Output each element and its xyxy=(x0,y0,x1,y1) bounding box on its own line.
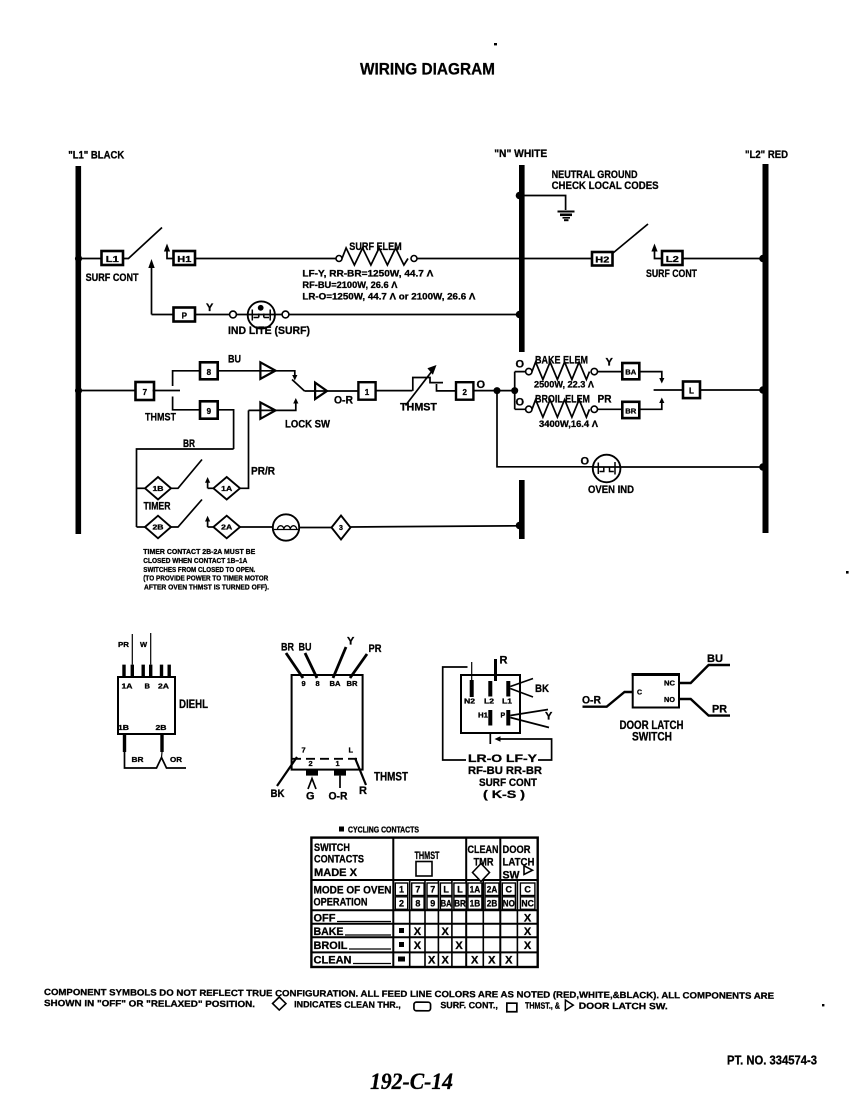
svg-text:X: X xyxy=(524,913,532,925)
svg-text:AFTER OVEN THMST IS TURNED: AFTER OVEN THMST IS TURNED OFF). xyxy=(144,583,269,592)
svg-text:L1: L1 xyxy=(502,699,512,706)
label LOCK SW xyxy=(285,419,331,431)
svg-text:RF-BU=2100W, 26.6 Λ: RF-BU=2100W, 26.6 Λ xyxy=(302,280,397,290)
svg-text:X: X xyxy=(524,940,532,952)
svg-text:P: P xyxy=(182,312,188,321)
label neutral ground xyxy=(552,169,659,192)
svg-text:CLEAN: CLEAN xyxy=(314,955,352,967)
svg-text:DOOR: DOOR xyxy=(503,844,531,856)
svg-text:SWITCH: SWITCH xyxy=(632,730,672,744)
svg-text:BK: BK xyxy=(535,683,549,695)
svg-text:THMST., &: THMST., & xyxy=(525,1001,560,1011)
contact arrow H1 xyxy=(164,244,174,259)
surfcont right bracket xyxy=(495,736,552,760)
label Y bake xyxy=(606,357,614,369)
thmst lead PR xyxy=(350,643,382,678)
svg-text:OVEN IND: OVEN IND xyxy=(588,484,634,496)
terminal box 2 xyxy=(456,382,473,400)
svg-text:8: 8 xyxy=(207,368,212,377)
surfcont terminal H1 xyxy=(478,710,492,726)
symbol thmst square xyxy=(507,1003,517,1012)
part number xyxy=(727,1054,817,1068)
diehl BR wire xyxy=(125,752,187,768)
doorlatch lead NO xyxy=(679,699,730,716)
label bus N xyxy=(494,148,547,160)
svg-text:7: 7 xyxy=(302,746,306,755)
wire bake to BA xyxy=(598,371,623,373)
svg-text:7: 7 xyxy=(143,388,148,397)
svg-text:BAKE: BAKE xyxy=(314,926,344,938)
mode cells lower xyxy=(395,897,535,910)
contact arrow 1A xyxy=(205,477,213,488)
svg-text:X: X xyxy=(471,955,479,967)
terminal circle broil left xyxy=(526,406,532,412)
svg-text:1A: 1A xyxy=(470,885,481,895)
label BAKE ELEM xyxy=(535,355,588,367)
lamp OVEN IND xyxy=(593,455,621,483)
wire to 2B xyxy=(137,526,146,528)
svg-text:LF-Y, RR-BR=1250W, 44.7 Λ: LF-Y, RR-BR=1250W, 44.7 Λ xyxy=(302,269,433,279)
header CLEAN TMR xyxy=(468,844,499,882)
row mode labels xyxy=(314,885,392,909)
terminal circle ind lite right xyxy=(282,311,289,318)
svg-text:MODE OF OVEN: MODE OF OVEN xyxy=(314,885,392,897)
thmst bottom terminals xyxy=(306,770,346,776)
cycling contacts note xyxy=(339,826,420,835)
svg-text:H2: H2 xyxy=(595,256,610,265)
svg-text:NO: NO xyxy=(664,697,676,704)
svg-text:BU: BU xyxy=(707,653,723,665)
timer motor xyxy=(273,514,299,540)
wire L1 bus to L1 box xyxy=(81,258,102,260)
terminal circle ind lite left xyxy=(230,311,237,318)
connector triangle T2 xyxy=(315,383,327,399)
svg-text:SW: SW xyxy=(503,870,521,882)
label OR diehl xyxy=(170,755,183,764)
svg-text:TIMER CONTACT 2B-2A MUST BE: TIMER CONTACT 2B-2A MUST BE xyxy=(143,547,255,556)
wire surf elem to H2 xyxy=(417,258,592,260)
label bus L1 xyxy=(68,149,124,161)
table horizontals xyxy=(311,880,537,952)
svg-text:PR: PR xyxy=(369,643,382,655)
doorlatch labels inside xyxy=(637,681,676,705)
terminal circle surf elem right xyxy=(411,256,417,262)
svg-text:L: L xyxy=(689,387,694,396)
svg-text:THMST: THMST xyxy=(415,850,440,862)
terminal circle surf elem left xyxy=(336,256,342,262)
thmst G lead xyxy=(306,779,316,803)
common bar to L xyxy=(654,389,683,391)
svg-text:C: C xyxy=(506,885,513,895)
note timer contact text xyxy=(143,547,269,592)
label THMST middle xyxy=(400,402,437,414)
label bake rating xyxy=(534,380,594,390)
label PR/R xyxy=(251,466,275,478)
svg-text:3: 3 xyxy=(339,525,343,532)
svg-text:SWITCHES FROM CLOSED TO OP: SWITCHES FROM CLOSED TO OPEN. xyxy=(143,565,255,574)
terminal box 1 xyxy=(358,382,375,400)
diehl pin labels top xyxy=(122,682,170,691)
wire box2 to junction xyxy=(473,387,518,394)
wire blade to 9 xyxy=(173,397,200,410)
thmst O-R lead xyxy=(329,776,348,803)
svg-text:CHECK LOCAL CODES: CHECK LOCAL CODES xyxy=(552,180,659,192)
label DIEHL xyxy=(179,697,208,711)
timer contact 2B xyxy=(145,516,171,539)
label O oven xyxy=(581,456,590,468)
svg-text:BK: BK xyxy=(271,788,285,800)
wire H1 to surf elem xyxy=(195,258,336,260)
wire blade to 8 xyxy=(173,371,200,386)
svg-text:2500W, 22.3 Λ: 2500W, 22.3 Λ xyxy=(534,380,594,390)
svg-text:7: 7 xyxy=(430,885,435,895)
svg-text:1A: 1A xyxy=(122,682,134,691)
thmst box xyxy=(292,675,363,770)
timer contact 2A xyxy=(213,516,240,539)
diehl wire PR xyxy=(131,634,133,665)
label THMST detail xyxy=(374,770,409,784)
terminal box 8 xyxy=(200,362,218,379)
timer contact 3 xyxy=(332,516,351,540)
svg-text:Y: Y xyxy=(606,357,614,369)
label SURF CONT right xyxy=(646,268,697,280)
lamp IND LITE SURF xyxy=(236,301,282,328)
surfcont R wire xyxy=(496,655,508,682)
bus N white segment upper xyxy=(519,165,525,352)
label DOOR LATCH xyxy=(620,718,684,744)
svg-text:RF-BU RR-BR: RF-BU RR-BR xyxy=(468,765,542,777)
label Y xyxy=(206,302,214,314)
terminal box H2 xyxy=(592,252,613,266)
svg-text:SWITCH: SWITCH xyxy=(314,842,350,854)
svg-text:LR-O=1250W, 44.7 Λ or 2100W, 2: LR-O=1250W, 44.7 Λ or 2100W, 26.6 Λ xyxy=(302,292,475,302)
wire to 1B xyxy=(137,487,146,489)
wire bake broil branch xyxy=(515,372,526,410)
svg-text:1A: 1A xyxy=(221,486,232,493)
label BR xyxy=(183,438,195,450)
svg-text:Y: Y xyxy=(206,302,214,314)
label TIMER xyxy=(144,501,171,513)
contact arrow P branch xyxy=(148,259,154,315)
svg-text:O-R: O-R xyxy=(329,791,348,803)
svg-text:( K-S ): ( K-S ) xyxy=(483,789,525,801)
svg-text:C: C xyxy=(524,885,531,895)
svg-text:PR/R: PR/R xyxy=(251,466,275,478)
svg-text:NC: NC xyxy=(521,898,534,908)
thermostat arrow xyxy=(406,365,437,406)
svg-text:BU: BU xyxy=(228,354,241,366)
surfcont terminal N2 xyxy=(464,680,475,706)
svg-text:1: 1 xyxy=(365,388,370,397)
svg-text:H1: H1 xyxy=(478,713,488,720)
svg-text:SURF CONT: SURF CONT xyxy=(646,268,697,280)
surfcont N2 wire xyxy=(471,662,473,680)
symbol surf cont xyxy=(414,1002,431,1011)
thmst pin labels top xyxy=(302,679,359,688)
svg-text:X: X xyxy=(524,926,532,938)
svg-text:OPERATION: OPERATION xyxy=(314,897,368,909)
doorlatch box xyxy=(632,674,680,708)
svg-text:2: 2 xyxy=(462,388,467,397)
svg-text:Y: Y xyxy=(545,711,553,723)
node L1 bus to surf cont xyxy=(75,255,82,262)
svg-text:"L1" BLACK: "L1" BLACK xyxy=(68,149,124,161)
svg-text:NC: NC xyxy=(664,681,675,688)
svg-text:P: P xyxy=(501,713,506,720)
svg-text:THMST: THMST xyxy=(374,770,409,784)
doorlatch lead C xyxy=(582,692,633,707)
svg-text:R: R xyxy=(500,655,508,667)
svg-text:BA: BA xyxy=(330,679,342,688)
neutral ground wire xyxy=(516,192,566,210)
svg-text:G: G xyxy=(306,791,315,803)
svg-text:SURF. CONT.,: SURF. CONT., xyxy=(440,1000,498,1010)
symbol door latch triangle xyxy=(565,1000,573,1010)
wire P to ind lite xyxy=(195,314,230,316)
svg-text:2: 2 xyxy=(399,898,404,908)
label OVEN IND xyxy=(588,484,634,496)
svg-text:LATCH: LATCH xyxy=(503,857,535,869)
svg-text:L1: L1 xyxy=(106,255,120,264)
label broil rating xyxy=(539,419,598,429)
mode cells upper xyxy=(395,883,535,896)
label bus L2 xyxy=(745,149,788,161)
svg-text:O-R: O-R xyxy=(582,695,601,707)
wire L2 box to L2 bus xyxy=(683,255,767,263)
svg-text:PR: PR xyxy=(712,704,727,716)
symbol clean tmr diamond xyxy=(273,997,286,1010)
wire contact 7 xyxy=(153,390,180,392)
wire motor to diamond 3 xyxy=(299,527,331,529)
svg-text:X: X xyxy=(442,955,450,967)
svg-text:SURF CONT: SURF CONT xyxy=(86,272,139,284)
thermostat adjustable jog xyxy=(413,378,456,391)
svg-text:B: B xyxy=(145,682,151,691)
timer contact 1A xyxy=(213,477,240,500)
svg-text:2B: 2B xyxy=(153,525,164,532)
surfcont Y leads xyxy=(510,710,553,728)
svg-text:1B: 1B xyxy=(470,898,481,908)
surfcont H1 stub xyxy=(489,733,491,744)
svg-text:NO: NO xyxy=(503,898,515,908)
handwritten doc number xyxy=(370,1069,453,1095)
contact arrow L2 xyxy=(651,244,662,259)
surfcont box xyxy=(461,675,520,733)
thmst R lead xyxy=(355,758,367,797)
svg-text:O: O xyxy=(581,456,590,468)
svg-text:INDICATES CLEAN THR.,: INDICATES CLEAN THR., xyxy=(294,999,401,1010)
thmst lead BR xyxy=(281,642,303,679)
label W diehl xyxy=(140,640,148,649)
wire BR horizontal xyxy=(137,449,234,527)
svg-text:192-C-14: 192-C-14 xyxy=(370,1069,453,1095)
surfcont BK leads xyxy=(510,679,549,698)
svg-text:SURF CONT: SURF CONT xyxy=(479,777,537,789)
timer contact 1B xyxy=(145,477,171,500)
svg-text:2B: 2B xyxy=(487,898,498,908)
svg-text:BA: BA xyxy=(625,370,636,377)
label PR broil xyxy=(598,394,612,406)
switch blade H2-L2 xyxy=(613,224,648,253)
wire junction down to oven ind xyxy=(497,391,594,467)
svg-text:TIMER: TIMER xyxy=(144,501,171,513)
connector triangle T1 xyxy=(260,362,275,379)
svg-text:BROIL ELEM: BROIL ELEM xyxy=(535,394,590,406)
terminal box L xyxy=(683,382,700,399)
svg-text:BR: BR xyxy=(625,408,636,415)
surfcont terminal P xyxy=(501,710,511,726)
thmst dashed line xyxy=(292,758,362,760)
svg-text:8: 8 xyxy=(316,679,320,688)
svg-text:THMST: THMST xyxy=(400,402,437,414)
svg-text:3400W,16.4 Λ: 3400W,16.4 Λ xyxy=(539,419,598,429)
svg-text:W: W xyxy=(140,640,148,649)
svg-text:L2: L2 xyxy=(484,699,494,706)
wire BA arrow down xyxy=(639,372,664,384)
label IND LITE (SURF) xyxy=(228,325,310,337)
svg-text:L: L xyxy=(457,885,463,895)
speck xyxy=(846,571,849,574)
svg-text:9: 9 xyxy=(430,898,435,908)
svg-text:2A: 2A xyxy=(487,885,498,895)
svg-text:DOOR LATCH SW.: DOOR LATCH SW. xyxy=(579,1001,668,1011)
svg-text:BR: BR xyxy=(132,755,145,764)
terminal circle broil right xyxy=(591,406,597,412)
switch blade L1-H1 xyxy=(123,228,162,259)
svg-text:1B: 1B xyxy=(153,486,164,493)
thmst lead BU xyxy=(299,642,318,679)
surfcont terminal L1 xyxy=(502,681,512,706)
surfcont text xyxy=(468,753,542,801)
svg-text:C: C xyxy=(637,690,642,697)
thmst lead Y xyxy=(333,636,355,679)
resistor BAKE ELEM xyxy=(532,362,590,380)
svg-text:OR: OR xyxy=(170,755,183,764)
label O broil xyxy=(516,397,525,409)
svg-text:Y: Y xyxy=(347,636,355,648)
svg-text:X: X xyxy=(414,926,422,938)
terminal box L2 xyxy=(662,251,683,265)
svg-text:R: R xyxy=(359,785,367,797)
svg-text:DIEHL: DIEHL xyxy=(179,697,208,711)
label surf elem ratings xyxy=(302,269,475,302)
svg-text:N2: N2 xyxy=(464,699,475,706)
svg-text:X: X xyxy=(488,955,496,967)
svg-text:1: 1 xyxy=(336,759,340,768)
label SURF CONT left xyxy=(86,272,139,284)
svg-text:CONTACTS: CONTACTS xyxy=(314,854,364,866)
wire 1A to lock sw PR/R xyxy=(240,410,249,488)
svg-text:WIRING DIAGRAM: WIRING DIAGRAM xyxy=(360,60,495,79)
table main verticals xyxy=(393,838,500,967)
table header texts xyxy=(314,842,364,879)
svg-text:9: 9 xyxy=(207,407,212,416)
svg-text:BR: BR xyxy=(347,679,359,688)
table outer xyxy=(311,838,537,967)
terminal circle bake right xyxy=(591,368,597,374)
svg-text:H1: H1 xyxy=(177,255,192,264)
svg-text:LR-O LF-Y: LR-O LF-Y xyxy=(468,753,538,765)
svg-text:O: O xyxy=(516,397,525,409)
svg-text:9: 9 xyxy=(302,679,306,688)
svg-text:2A: 2A xyxy=(158,682,170,691)
terminal box BR xyxy=(622,402,639,418)
svg-text:LOCK SW: LOCK SW xyxy=(285,419,331,431)
doorlatch lead NC xyxy=(679,653,730,683)
blade 2B xyxy=(171,500,202,528)
lock switch blade xyxy=(292,380,305,392)
terminal box 7 xyxy=(136,382,155,400)
wire box1 to thmst adj xyxy=(376,390,412,392)
svg-text:BAKE ELEM: BAKE ELEM xyxy=(535,355,588,367)
surfcont terminal L2 xyxy=(484,681,494,706)
wire P branch xyxy=(152,314,174,316)
svg-text:BR: BR xyxy=(454,898,466,908)
row CLEAN xyxy=(314,955,514,967)
contact arrow 2A xyxy=(205,516,213,527)
diehl box xyxy=(118,677,175,734)
row OFF xyxy=(314,913,532,925)
label O after box 2 xyxy=(477,379,486,391)
wire 8 through T1 xyxy=(218,371,298,381)
svg-text:X: X xyxy=(505,955,513,967)
svg-text:MADE X: MADE X xyxy=(314,867,358,879)
svg-text:O: O xyxy=(516,359,525,371)
terminal box P xyxy=(174,308,196,322)
svg-text:1: 1 xyxy=(399,885,404,895)
connector triangle T3 lock sw xyxy=(260,402,275,418)
svg-text:L: L xyxy=(443,885,449,895)
svg-text:IND LITE (SURF): IND LITE (SURF) xyxy=(228,325,310,337)
header THMST xyxy=(415,850,440,876)
svg-text:OFF: OFF xyxy=(314,913,336,925)
row BROIL xyxy=(314,940,532,952)
svg-text:BR: BR xyxy=(183,438,195,450)
svg-text:X: X xyxy=(428,955,436,967)
wire ind lite to N bus xyxy=(289,311,523,319)
svg-text:CYCLING CONTACTS: CYCLING CONTACTS xyxy=(348,826,420,835)
label O-R xyxy=(334,395,353,407)
wire 3 to N bus xyxy=(351,522,524,530)
title xyxy=(360,60,495,79)
svg-text:SHOWN IN "OFF" OR "RELAXED" PO: SHOWN IN "OFF" OR "RELAXED" POSITION. xyxy=(44,998,255,1009)
svg-text:X: X xyxy=(414,940,422,952)
wire BR arrow up xyxy=(639,398,664,410)
svg-text:BROIL: BROIL xyxy=(314,940,348,952)
svg-text:2: 2 xyxy=(309,759,313,768)
wire oven ind to L2 bus xyxy=(620,463,766,471)
resistor BROIL ELEM xyxy=(532,400,590,418)
svg-text:X: X xyxy=(442,926,450,938)
terminal box H1 xyxy=(174,251,196,265)
svg-text:"N" WHITE: "N" WHITE xyxy=(494,148,547,160)
label PR diehl xyxy=(118,640,130,649)
surfcont left bracket xyxy=(443,667,468,760)
wire into T3 xyxy=(249,398,299,410)
thmst pin labels bottom xyxy=(302,746,354,769)
table sub verticals xyxy=(410,881,518,967)
resistor SURF ELEM xyxy=(342,248,408,265)
svg-text:X: X xyxy=(455,940,463,952)
svg-text:"L2" RED: "L2" RED xyxy=(745,149,788,161)
diehl bottom pins xyxy=(125,734,163,752)
wire 2A to motor xyxy=(240,526,273,528)
svg-text:BU: BU xyxy=(299,642,312,654)
footer notes xyxy=(44,987,774,1013)
terminal circle bake left xyxy=(526,368,532,374)
svg-text:2B: 2B xyxy=(156,723,168,732)
svg-text:L2: L2 xyxy=(666,255,680,264)
